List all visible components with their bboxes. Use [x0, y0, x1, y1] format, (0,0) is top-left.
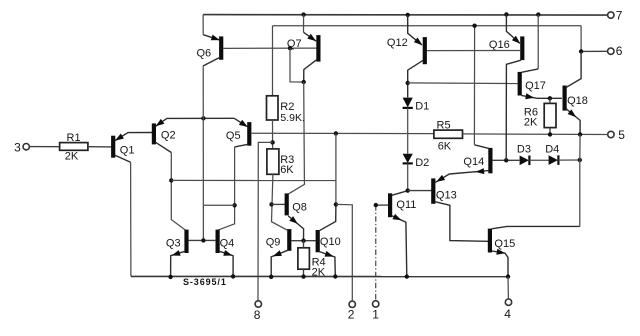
terminal 8 [254, 301, 262, 322]
node junction at T6 line [579, 49, 583, 53]
resistor R1 [60, 132, 88, 162]
node Q14 base line junction [504, 158, 508, 162]
transistor Q6 [197, 35, 222, 66]
svg-text:Q16: Q16 [489, 39, 510, 51]
node Q2 collector branch [169, 178, 173, 182]
svg-text:2K: 2K [65, 150, 79, 162]
wire terminal 6 stub [581, 50, 608, 52]
terminal 3 [14, 140, 29, 154]
svg-text:D2: D2 [415, 157, 429, 169]
node Q7 base-collector junction [302, 80, 306, 84]
svg-text:D3: D3 [517, 144, 531, 156]
svg-text:D4: D4 [545, 143, 559, 155]
transistor Q7 [287, 32, 319, 82]
wire R3 bottom to Q8 base / Q9 collector [272, 174, 288, 230]
resistor R6 [524, 98, 556, 134]
svg-text:2: 2 [348, 308, 355, 322]
wire second stage vertical (x=336) [335, 133, 337, 204]
svg-text:Q14: Q14 [463, 156, 484, 168]
wire Q7 emitter from top rail [303, 15, 305, 33]
wire Q2 emitter line to Q5 emitter [234, 118, 248, 127]
wire Q7 base-collector tie [290, 48, 304, 82]
svg-text:Q11: Q11 [396, 199, 416, 211]
node bottom rail junctions [168, 274, 510, 279]
wire Q12 collector to Q17 base [408, 82, 519, 85]
wire Q12 base to Q16 base [427, 50, 521, 52]
label S-3695/1 [183, 277, 227, 287]
node Q5/Q4 collector junction [232, 203, 236, 207]
wire Q6 base to Q7 base [223, 47, 316, 49]
wire Q6 collector down to Q3/Q4 base rail [202, 66, 204, 241]
svg-text:5: 5 [618, 128, 625, 142]
transistor Q1 [113, 133, 152, 163]
svg-text:R5: R5 [437, 119, 451, 131]
node D4 right junction [578, 158, 582, 162]
wire pin1 line to Q11 base [376, 205, 389, 300]
node R2/R3 junction [270, 140, 274, 144]
svg-text:6K: 6K [438, 140, 452, 152]
diode D2 [403, 154, 430, 169]
node Q17 emitter / R6 top junction [548, 96, 552, 100]
node Q12 collector branch [406, 81, 410, 85]
wire terminal 3 to R1 [29, 146, 60, 148]
wire mirror node to Q3/Q4 base rail [203, 204, 234, 206]
svg-text:Q8: Q8 [292, 201, 307, 213]
svg-text:Q15: Q15 [494, 238, 515, 250]
wire terminal 4 stub [507, 277, 509, 299]
transistor Q16 [489, 14, 522, 160]
svg-text:8: 8 [254, 308, 261, 322]
svg-text:Q18: Q18 [567, 95, 588, 107]
svg-text:Q13: Q13 [436, 189, 457, 201]
wire Q6 emitter to top rail corner [202, 15, 204, 35]
svg-text:Q2: Q2 [161, 130, 176, 142]
resistor R3 [267, 149, 294, 176]
svg-text:S-3695/1: S-3695/1 [183, 277, 227, 287]
svg-text:7: 7 [616, 9, 623, 23]
wire Q2 collector branch to second stage (y=180) [171, 179, 336, 181]
wire R2/R3 junction to terminal 8 [258, 142, 273, 300]
wire Q1 collector to bottom rail [130, 162, 132, 276]
wire Q18 emitter down to D4 node [579, 134, 581, 160]
wire Q15 collector riser [579, 160, 581, 226]
terminal 6 [608, 44, 623, 58]
wire Q13 base lead [408, 190, 432, 192]
svg-text:R1: R1 [67, 132, 81, 144]
wire pin2 line corner [336, 204, 352, 300]
svg-text:3: 3 [14, 140, 21, 154]
terminal 7 [608, 9, 623, 23]
svg-text:Q10: Q10 [320, 236, 341, 248]
svg-text:Q6: Q6 [197, 47, 212, 59]
wire collector riser x=538 [537, 15, 539, 69]
svg-text:Q7: Q7 [287, 38, 302, 50]
transistor Q5 [226, 122, 249, 147]
svg-text:6K: 6K [280, 164, 294, 176]
wire R1 to Q1 base [88, 146, 112, 148]
transistor Q4 [218, 230, 235, 277]
diode D4 [545, 143, 559, 165]
transistor Q9 [266, 229, 290, 277]
svg-text:Q1: Q1 [120, 145, 135, 157]
svg-text:Q17: Q17 [525, 80, 546, 92]
resistor R5 [434, 119, 463, 152]
wire Q7 collector down to Q8 collector [289, 82, 305, 194]
terminal 4 [504, 299, 511, 321]
svg-text:2K: 2K [524, 117, 538, 129]
wire output rail (pin 6 net, R2 top to T6) [273, 26, 582, 96]
wire bottom rail (V- net) [131, 275, 508, 277]
svg-text:Q5: Q5 [226, 130, 241, 142]
svg-text:4: 4 [504, 307, 511, 321]
transistor Q2 [154, 118, 234, 152]
svg-text:6: 6 [616, 44, 623, 58]
wire Q8 base lead [272, 203, 286, 205]
node pin1 junction [374, 203, 378, 207]
node bias line tap to second stage [334, 131, 338, 135]
resistor R2 [267, 96, 305, 124]
svg-text:Q9: Q9 [266, 237, 281, 249]
wire Q9/Q10 base rail with R4 [291, 240, 316, 242]
transistor Q14 [449, 145, 519, 174]
svg-text:1: 1 [372, 308, 379, 322]
node top rail at x=538 [536, 12, 540, 16]
svg-text:Q12: Q12 [387, 37, 408, 49]
diode D3 [517, 144, 531, 165]
svg-text:D1: D1 [415, 100, 429, 112]
transistor Q11 [390, 191, 416, 277]
svg-text:Q3: Q3 [166, 238, 181, 250]
node R6 bottom on terminal 5 line [548, 132, 552, 136]
terminal 2 [348, 301, 356, 321]
transistor Q12 [387, 15, 425, 98]
wire Q14 collector from pin6 rail [473, 26, 475, 145]
wire Q3/Q4 base rail [188, 239, 216, 241]
wire Q2 collector down with branch [171, 153, 185, 230]
node Q6/Q7 base line tap [288, 46, 292, 50]
transistor Q8 [287, 193, 307, 240]
transistor Q3 [166, 230, 187, 277]
terminal 1 [372, 301, 379, 322]
node second stage / Q10 collector junction [334, 202, 338, 206]
node Q8 base junction [269, 202, 273, 206]
node Q18 emitter on terminal 5 line [578, 132, 582, 136]
svg-text:5.9K.: 5.9K. [280, 112, 305, 124]
wire R5 right / terminal 5 line [463, 133, 608, 136]
transistor Q17 [520, 69, 562, 99]
transistor Q18 [565, 51, 588, 134]
node Q9/Q10 base junction [301, 239, 305, 243]
diode D1 [403, 98, 430, 113]
node Q3/Q4 base junction [201, 238, 205, 242]
transistor Q10 [318, 204, 341, 276]
node top rail at Q7 emitter [301, 12, 305, 16]
transistor Q13 [433, 174, 488, 241]
node pin6 rail tap [472, 24, 476, 28]
wire D4 to output emitter node [558, 159, 579, 161]
wire D3 to D4 [529, 159, 548, 161]
terminal 5 [608, 128, 626, 142]
node Q2/Q5 emitter junction with Q6 collector [201, 116, 205, 120]
svg-text:Q4: Q4 [220, 238, 235, 250]
transistor Q15 [490, 226, 580, 276]
wire D2 to Q11/Q13 node [407, 163, 409, 190]
wire V+ top rail (pin 7 net) [203, 14, 608, 17]
wire Q5 collector down to mirror node [218, 147, 234, 230]
node D2 bottom junction [406, 188, 410, 192]
wire D1 to D2 [407, 108, 409, 154]
node top rail at Q16 emitter [504, 12, 508, 16]
resistor R4 [298, 241, 326, 279]
wire R2 bottom to R3 top [272, 120, 274, 149]
wire Q5 base line (bias line to R5) [251, 132, 434, 134]
node top rail at Q12 [406, 13, 410, 17]
